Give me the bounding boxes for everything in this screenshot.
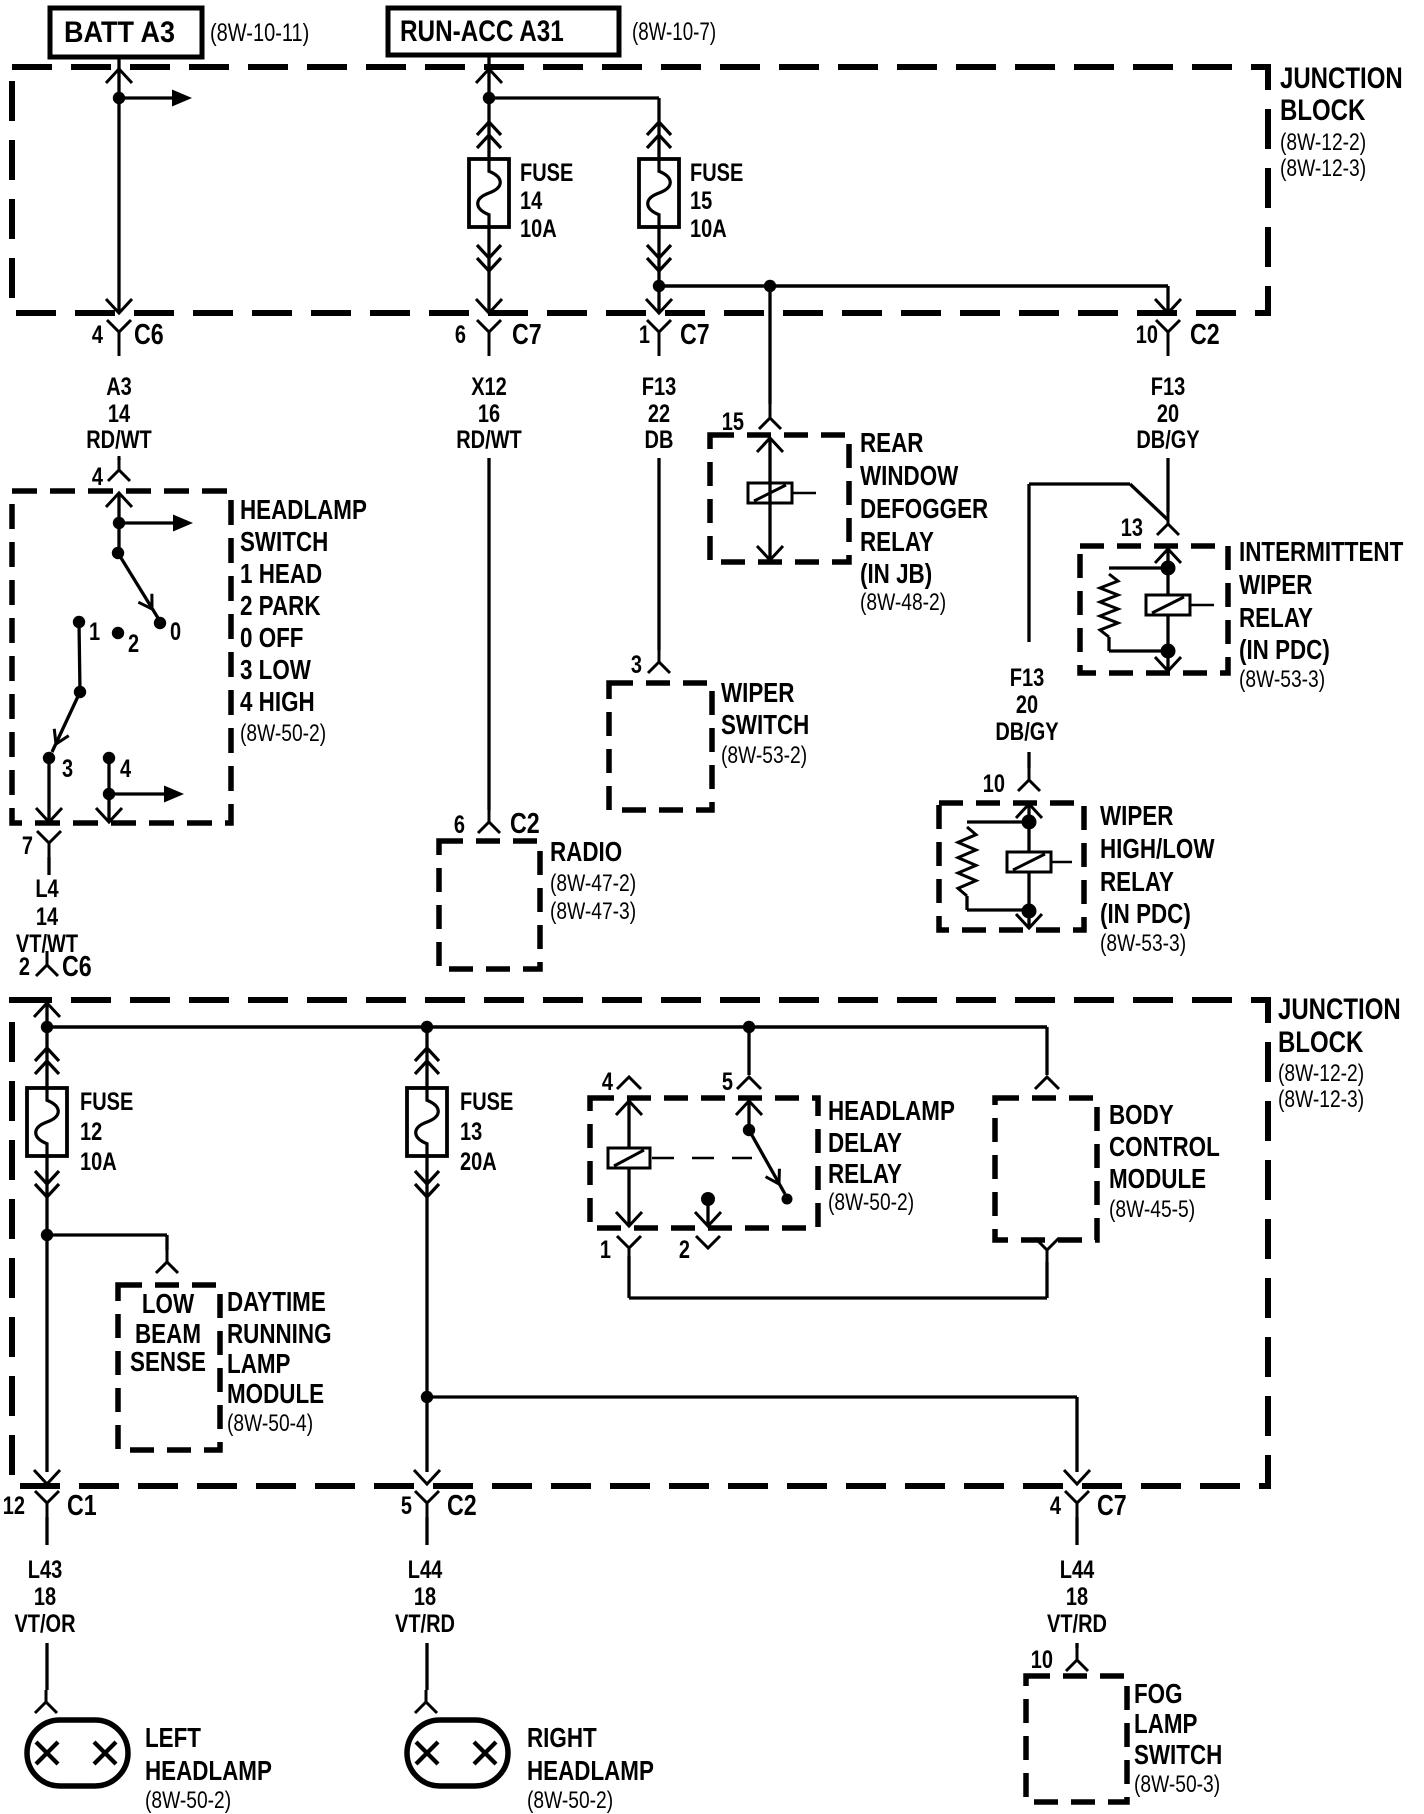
wire LBS branch <box>47 1235 167 1250</box>
svg-text:15: 15 <box>690 187 712 215</box>
delay relay pin 2 fork <box>679 1236 720 1264</box>
junction block 2 label <box>1278 993 1401 1113</box>
double chevron fuse13 down <box>415 1171 439 1197</box>
svg-text:(8W-10-11): (8W-10-11) <box>210 19 309 47</box>
svg-text:C7: C7 <box>1097 1490 1127 1522</box>
radio connector pin 6 <box>454 808 540 840</box>
svg-text:RUN-ACC A31: RUN-ACC A31 <box>400 15 564 48</box>
svg-text:JUNCTION: JUNCTION <box>1278 993 1401 1026</box>
svg-text:F13: F13 <box>1010 664 1045 692</box>
svg-text:13: 13 <box>460 1118 482 1146</box>
svg-text:1: 1 <box>600 1236 611 1264</box>
svg-text:(8W-53-3): (8W-53-3) <box>1100 930 1186 957</box>
delay relay pin2 dot <box>701 1192 715 1206</box>
body control module label <box>1109 1099 1220 1223</box>
defogger relay coil <box>748 483 816 503</box>
svg-text:WIPER: WIPER <box>1100 800 1173 831</box>
svg-text:RADIO: RADIO <box>550 836 622 867</box>
svg-text:6: 6 <box>454 811 465 839</box>
wiper switch box <box>609 683 712 810</box>
svg-text:REAR: REAR <box>860 427 924 458</box>
svg-text:MODULE: MODULE <box>1109 1163 1206 1194</box>
headlamp switch wiper pivot dot <box>112 547 124 559</box>
svg-text:A3: A3 <box>106 373 132 401</box>
fuse 13 <box>407 1088 447 1156</box>
defogger relay label <box>860 427 988 616</box>
svg-text:VT/OR: VT/OR <box>14 1610 75 1638</box>
svg-text:20: 20 <box>1016 691 1038 719</box>
svg-text:VT/RD: VT/RD <box>395 1610 455 1638</box>
svg-text:RELAY: RELAY <box>860 526 934 557</box>
svg-text:5: 5 <box>401 1492 412 1520</box>
headlamp switch arrow 4 <box>109 786 184 803</box>
svg-text:DELAY: DELAY <box>828 1127 902 1158</box>
svg-text:MODULE: MODULE <box>227 1378 324 1409</box>
delay relay pin 1 <box>600 1236 641 1264</box>
svg-text:L4: L4 <box>35 875 58 903</box>
BCM bottom connector <box>1035 1238 1059 1274</box>
svg-text:(IN PDC): (IN PDC) <box>1100 898 1191 929</box>
delay relay coil out <box>616 1168 642 1226</box>
wire to left headlamp <box>35 1643 57 1713</box>
svg-text:(8W-12-2): (8W-12-2) <box>1280 129 1366 156</box>
arrow BATT feed right <box>119 90 192 107</box>
wire branch to fuse 15 <box>489 98 659 159</box>
intermittent relay resistor <box>1100 568 1168 651</box>
svg-text:20: 20 <box>1157 400 1179 428</box>
svg-text:LAMP: LAMP <box>227 1348 291 1379</box>
left headlamp <box>27 1720 128 1786</box>
svg-text:10: 10 <box>983 770 1005 798</box>
svg-text:DAYTIME: DAYTIME <box>227 1286 326 1317</box>
svg-text:18: 18 <box>1066 1583 1088 1611</box>
left headlamp label <box>145 1722 272 1814</box>
svg-text:3 LOW: 3 LOW <box>240 654 311 685</box>
junction dot defogger branch <box>764 280 776 292</box>
svg-text:JUNCTION: JUNCTION <box>1280 62 1403 95</box>
headlamp switch wire pin7 <box>36 758 62 822</box>
svg-text:3: 3 <box>631 651 642 679</box>
hilo relay out wire <box>1016 873 1042 928</box>
svg-text:L44: L44 <box>1060 1556 1095 1584</box>
svg-text:F13: F13 <box>1151 373 1186 401</box>
svg-text:HEADLAMP: HEADLAMP <box>240 494 367 525</box>
wire to right headlamp <box>415 1643 437 1713</box>
junction block 2 bus wire <box>47 1003 1047 1090</box>
right headlamp label <box>527 1722 654 1814</box>
label (8W-10-11) <box>210 19 309 47</box>
svg-text:DB/GY: DB/GY <box>995 718 1059 746</box>
headlamp delay relay label <box>828 1095 955 1216</box>
wiper hilo relay label <box>1100 800 1215 957</box>
delay relay blade contact <box>782 1194 793 1205</box>
BCM entry connector <box>1035 1077 1059 1089</box>
wiper switch connector pin 3 <box>631 648 670 679</box>
svg-text:L43: L43 <box>28 1556 63 1584</box>
svg-text:CONTROL: CONTROL <box>1109 1131 1220 1162</box>
svg-text:2: 2 <box>679 1236 690 1264</box>
wire F13 22 DB label <box>642 373 677 454</box>
connector pin 7 <box>22 831 61 867</box>
connector C2 pin 10 <box>1136 319 1220 356</box>
svg-text:4: 4 <box>602 1068 613 1096</box>
svg-text:6: 6 <box>455 321 466 349</box>
fuse 12 <box>27 1088 67 1156</box>
double chevron fuse13 up <box>415 1048 439 1074</box>
junction dot BATT feed <box>113 92 125 104</box>
svg-text:(8W-50-2): (8W-50-2) <box>240 720 326 747</box>
junction dot LBS branch <box>41 1229 53 1241</box>
intermittent relay top dot <box>1161 561 1176 576</box>
double chevron fuse15 up <box>647 122 671 148</box>
wiper switch label <box>721 677 809 769</box>
headlamp delay relay box <box>590 1098 818 1228</box>
intermittent wiper relay box <box>1080 546 1228 673</box>
svg-text:2 PARK: 2 PARK <box>240 590 321 621</box>
svg-text:RD/WT: RD/WT <box>456 426 522 454</box>
svg-text:DB: DB <box>645 426 674 454</box>
low beam sense label <box>130 1288 206 1377</box>
delay relay pin4 wire <box>616 1101 642 1149</box>
hilo relay bottom dot <box>1022 904 1037 919</box>
svg-text:18: 18 <box>414 1583 436 1611</box>
svg-text:RELAY: RELAY <box>828 1158 902 1189</box>
wire L44 VT/RD label <box>1047 1517 1107 1638</box>
svg-text:FOG: FOG <box>1134 1678 1183 1709</box>
double chevron fuse15 down <box>647 245 671 271</box>
svg-text:(8W-48-2): (8W-48-2) <box>860 589 946 616</box>
svg-text:18: 18 <box>34 1583 56 1611</box>
connector C7 pin 4 <box>1050 1490 1127 1527</box>
label FUSE 15 10A <box>690 159 743 243</box>
svg-text:SWITCH: SWITCH <box>721 709 809 740</box>
label (8W-10-7) <box>632 18 716 46</box>
headlamp switch dot 4b <box>103 788 115 800</box>
headlamp switch contact 4 <box>103 752 131 783</box>
headlamp switch wire 4 <box>96 758 122 822</box>
wire L43 label <box>14 1517 75 1638</box>
headlamp switch blade to 0 <box>118 553 159 618</box>
svg-text:(8W-53-3): (8W-53-3) <box>1239 666 1325 693</box>
svg-text:LAMP: LAMP <box>1134 1708 1198 1739</box>
wire to delay relay pin 5 <box>747 1027 750 1075</box>
fuse 14 <box>469 159 509 227</box>
svg-text:20A: 20A <box>460 1148 497 1176</box>
svg-text:WIPER: WIPER <box>721 677 794 708</box>
svg-text:10: 10 <box>1031 1646 1053 1674</box>
headlamp switch feed arrow <box>119 515 193 532</box>
svg-text:4: 4 <box>120 755 131 783</box>
wire below fuse 14 <box>476 227 502 313</box>
svg-text:10A: 10A <box>80 1148 117 1176</box>
svg-text:HIGH/LOW: HIGH/LOW <box>1100 833 1215 864</box>
hilo relay connector pin 10 <box>983 766 1040 798</box>
svg-text:14: 14 <box>520 187 542 215</box>
radio box <box>439 841 540 969</box>
fuse 13 wire <box>414 1027 440 1484</box>
right headlamp <box>407 1720 508 1786</box>
svg-text:1 HEAD: 1 HEAD <box>240 558 322 589</box>
headlamp switch contact 2 <box>112 627 139 658</box>
wire F13 20 DB/GY label <box>1136 373 1200 454</box>
junction dot F13 bus <box>653 280 665 292</box>
daytime running lamp module label <box>227 1286 332 1437</box>
svg-text:(8W-50-2): (8W-50-2) <box>828 1189 914 1216</box>
delay relay blade <box>749 1130 786 1194</box>
headlamp switch feed wire <box>106 493 132 553</box>
svg-text:10: 10 <box>1136 321 1158 349</box>
label FUSE 14 10A <box>520 159 573 243</box>
relay 13 connector <box>1121 510 1179 542</box>
wire L44 label <box>395 1517 455 1638</box>
connector box BATT A3 <box>50 8 202 57</box>
svg-text:(8W-12-3): (8W-12-3) <box>1280 155 1366 182</box>
wire F13 20 DB/GY mid label <box>995 664 1059 746</box>
svg-text:HEADLAMP: HEADLAMP <box>527 1755 654 1786</box>
junction block 2 entry chevron <box>34 1003 60 1017</box>
svg-text:HEADLAMP: HEADLAMP <box>828 1095 955 1126</box>
svg-text:C6: C6 <box>62 951 92 983</box>
svg-text:16: 16 <box>478 400 500 428</box>
fog lamp switch box <box>1026 1676 1127 1802</box>
svg-text:4: 4 <box>1050 1492 1061 1520</box>
fog lamp connector pin 10 <box>1031 1646 1088 1674</box>
wire F13 bus <box>659 286 1181 313</box>
svg-text:(8W-50-4): (8W-50-4) <box>227 1410 313 1437</box>
delay relay pin 5 connector <box>722 1068 761 1096</box>
svg-text:(8W-45-5): (8W-45-5) <box>1109 1196 1195 1223</box>
svg-text:C2: C2 <box>447 1490 477 1522</box>
svg-text:X12: X12 <box>471 373 507 401</box>
svg-text:4 HIGH: 4 HIGH <box>240 686 315 717</box>
junction dot lower bus <box>421 1391 433 1403</box>
wire X12 16 RD/WT label <box>456 373 522 454</box>
svg-text:C1: C1 <box>67 1490 97 1522</box>
defogger relay box <box>710 435 849 562</box>
svg-text:DB/GY: DB/GY <box>1136 426 1200 454</box>
svg-text:RUNNING: RUNNING <box>227 1318 332 1349</box>
svg-text:14: 14 <box>36 903 58 931</box>
wire to headlamp switch <box>117 458 120 460</box>
svg-text:FUSE: FUSE <box>80 1088 133 1116</box>
connector C6 pin 4 <box>92 319 164 356</box>
headlamp switch contact 3 <box>43 752 73 783</box>
svg-text:12: 12 <box>3 1492 25 1520</box>
headlamp switch connector pin 4 <box>92 456 130 491</box>
wire BATT A3 feed <box>106 57 132 313</box>
svg-text:LEFT: LEFT <box>145 1722 201 1753</box>
headlamp switch contact 1 <box>73 616 100 646</box>
svg-text:13: 13 <box>1121 514 1143 542</box>
wire RUN-ACC feed <box>476 55 502 159</box>
headlamp switch contact 0 <box>154 617 181 646</box>
svg-text:FUSE: FUSE <box>520 159 573 187</box>
radio label <box>550 836 636 925</box>
svg-text:10A: 10A <box>690 215 727 243</box>
hilo relay feed <box>1016 804 1042 852</box>
svg-text:(8W-12-2): (8W-12-2) <box>1278 1060 1364 1087</box>
fuse 15 <box>639 159 679 227</box>
svg-text:RIGHT: RIGHT <box>527 1722 597 1753</box>
intermittent relay feed <box>1155 549 1181 594</box>
svg-text:RELAY: RELAY <box>1239 602 1313 633</box>
double chevron fuse12 up <box>35 1048 59 1074</box>
svg-text:4: 4 <box>92 463 103 491</box>
svg-text:BLOCK: BLOCK <box>1280 94 1366 127</box>
defogger relay coil wire <box>757 438 783 560</box>
svg-text:HEADLAMP: HEADLAMP <box>145 1755 272 1786</box>
hilo relay top dot <box>1022 815 1037 830</box>
bus dot fuse 12 <box>41 1021 53 1033</box>
svg-text:VT/RD: VT/RD <box>1047 1610 1107 1638</box>
svg-text:(IN PDC): (IN PDC) <box>1239 634 1330 665</box>
svg-text:BODY: BODY <box>1109 1099 1174 1130</box>
svg-text:15: 15 <box>722 408 744 436</box>
svg-text:2: 2 <box>128 630 139 658</box>
wire defogger branch <box>768 286 771 404</box>
svg-text:(8W-47-2): (8W-47-2) <box>550 870 636 897</box>
wire DB/GY to relay 13 <box>1166 458 1169 512</box>
wire branch diagonal <box>1029 484 1168 642</box>
svg-text:FUSE: FUSE <box>690 159 743 187</box>
svg-text:RD/WT: RD/WT <box>86 426 152 454</box>
junction block 1 label <box>1280 62 1403 182</box>
svg-text:BEAM: BEAM <box>135 1318 201 1349</box>
svg-text:WIPER: WIPER <box>1239 569 1312 600</box>
svg-text:LOW: LOW <box>142 1288 195 1319</box>
lower bus wire <box>427 1397 1090 1484</box>
svg-text:SWITCH: SWITCH <box>240 526 328 557</box>
headlamp switch wire 1-3 <box>79 622 80 692</box>
svg-text:0: 0 <box>170 618 181 646</box>
wire to hilo relay <box>1027 752 1030 768</box>
junction dot RUN-ACC <box>483 92 495 104</box>
wire A3 14 RD/WT label <box>86 373 152 454</box>
svg-text:(8W-12-3): (8W-12-3) <box>1278 1086 1364 1113</box>
connector box RUN-ACC A31 <box>388 8 619 55</box>
svg-text:DEFOGGER: DEFOGGER <box>860 493 988 524</box>
label FUSE 12 10A <box>80 1088 133 1176</box>
label FUSE 13 20A <box>460 1088 513 1176</box>
svg-text:14: 14 <box>108 400 130 428</box>
svg-text:(8W-50-3): (8W-50-3) <box>1134 1771 1220 1798</box>
hilo relay resistor <box>958 822 1029 910</box>
wire delay relay to BCM <box>629 1256 1047 1298</box>
svg-text:2: 2 <box>19 953 30 981</box>
svg-text:(IN JB): (IN JB) <box>860 558 932 589</box>
connector C7 pin 1 <box>639 319 710 356</box>
double chevron fuse12 down <box>35 1171 59 1197</box>
delay relay pin2 wire <box>695 1199 721 1226</box>
svg-text:0 OFF: 0 OFF <box>240 622 304 653</box>
connector C1 pin 12 <box>3 1490 97 1527</box>
svg-text:C2: C2 <box>1190 319 1220 351</box>
svg-text:INTERMITTENT: INTERMITTENT <box>1239 536 1403 567</box>
intermittent wiper relay label <box>1239 536 1403 693</box>
svg-text:L44: L44 <box>408 1556 443 1584</box>
svg-text:12: 12 <box>80 1118 102 1146</box>
svg-text:RELAY: RELAY <box>1100 866 1174 897</box>
svg-text:BLOCK: BLOCK <box>1278 1026 1364 1059</box>
fog lamp switch label <box>1134 1678 1222 1798</box>
svg-text:5: 5 <box>722 1068 733 1096</box>
svg-text:WINDOW: WINDOW <box>860 460 959 491</box>
svg-text:SENSE: SENSE <box>130 1346 206 1377</box>
svg-text:(8W-50-2): (8W-50-2) <box>527 1787 613 1814</box>
junction block 2 border <box>12 1000 1268 1486</box>
body control module box <box>995 1098 1097 1240</box>
delay relay coil <box>608 1148 650 1168</box>
junction block 1 border <box>12 67 1268 313</box>
intermittent relay out wire <box>1155 616 1181 671</box>
svg-text:FUSE: FUSE <box>460 1088 513 1116</box>
wire to fog lamp switch <box>1075 1643 1078 1648</box>
headlamp switch label <box>240 494 367 747</box>
double chevron fuse14 up <box>477 122 501 148</box>
headlamp switch feed dot <box>113 517 125 529</box>
wiper hilo relay box <box>939 803 1084 930</box>
double chevron fuse14 down <box>477 245 501 271</box>
svg-text:F13: F13 <box>642 373 677 401</box>
hilo relay coil <box>1007 852 1072 872</box>
svg-text:(8W-10-7): (8W-10-7) <box>632 18 716 46</box>
delay relay pin 4 connector <box>602 1068 641 1096</box>
svg-text:(8W-47-3): (8W-47-3) <box>550 898 636 925</box>
svg-text:SWITCH: SWITCH <box>1134 1739 1222 1770</box>
svg-text:7: 7 <box>22 832 33 860</box>
svg-text:1: 1 <box>89 618 100 646</box>
low beam sense box <box>118 1285 220 1450</box>
svg-text:C2: C2 <box>510 808 540 840</box>
intermittent relay coil <box>1146 595 1214 615</box>
connector C6 pin 2 <box>19 951 92 983</box>
wire X12 to radio <box>487 458 490 810</box>
svg-text:(8W-53-2): (8W-53-2) <box>721 742 807 769</box>
defogger relay connector pin 15 <box>722 404 781 436</box>
headlamp switch blade to 3 <box>49 692 80 752</box>
LBS connector <box>156 1248 178 1273</box>
wire below fuse 15 <box>646 227 672 313</box>
svg-text:C7: C7 <box>680 319 710 351</box>
delay relay linkage <box>652 1157 752 1160</box>
svg-text:10A: 10A <box>520 215 557 243</box>
wire DB to wiper switch <box>657 458 660 650</box>
svg-text:C7: C7 <box>512 319 542 351</box>
delay relay pin5 wire <box>736 1101 762 1130</box>
svg-text:1: 1 <box>639 321 650 349</box>
svg-text:(8W-50-2): (8W-50-2) <box>145 1787 231 1814</box>
connector C7 pin 6 <box>455 319 542 356</box>
svg-text:C6: C6 <box>134 319 164 351</box>
bus dot fuse 13 <box>421 1021 433 1033</box>
wire L4 label <box>16 857 78 958</box>
svg-text:22: 22 <box>648 400 670 428</box>
svg-text:BATT A3: BATT A3 <box>64 16 175 49</box>
wire below fuse 12 <box>34 1156 60 1484</box>
connector C2 pin 5 <box>401 1490 477 1527</box>
intermittent relay bottom dot <box>1161 644 1176 659</box>
bus dot delay relay <box>743 1021 755 1033</box>
svg-text:3: 3 <box>62 755 73 783</box>
delay relay blade dot <box>743 1124 755 1136</box>
headlamp switch pivot dot 2 <box>74 686 86 698</box>
headlamp switch box <box>12 491 231 823</box>
svg-text:4: 4 <box>92 321 103 349</box>
